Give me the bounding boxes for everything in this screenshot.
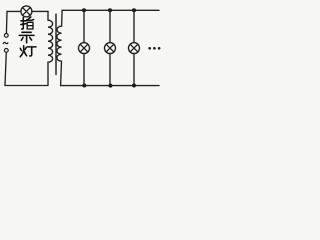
branch 1 wire + lamp [79,10,90,85]
wire bottom rail [61,85,159,87]
wire left vertical upper [5,11,8,33]
node junction bottom 1 [82,84,86,88]
transformer secondary winding [57,10,62,85]
wire left vertical lower [5,52,6,85]
wire top rail [62,9,159,11]
node junction bottom 2 [108,84,112,88]
label char deng 灯 [20,46,36,57]
transformer primary winding [48,11,53,85]
branch 3 wire + lamp [129,10,140,85]
wire bottom-left to primary [5,85,48,87]
node junction bottom 3 [132,84,136,88]
wire lamp to transformer primary top [32,10,48,12]
transformer core [55,14,57,74]
terminal upper [4,34,8,38]
ellipsis more-lamps dots [148,47,160,50]
AC source tilde [3,42,8,43]
node junction top 2 [108,8,112,12]
label char zhi 指 [21,17,34,29]
wire top-left from corner to lamp [7,10,21,12]
terminal lower [4,49,8,53]
label char shi 示 [19,32,34,43]
node junction top 1 [82,8,86,12]
branch 2 wire + lamp [105,10,116,85]
lamp indicator (circle-X) [21,6,32,17]
node junction top 3 [132,8,136,12]
